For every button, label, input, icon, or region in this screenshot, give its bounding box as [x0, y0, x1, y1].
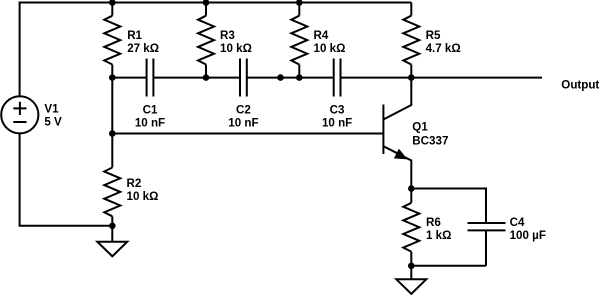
svg-text:R5: R5	[426, 29, 441, 42]
junction dot base wire tap	[109, 130, 116, 137]
V1 plus sign	[13, 102, 26, 115]
resistor R2	[104, 168, 120, 242]
wire V1 minus terminal down to bottom rail	[19, 133, 113, 227]
svg-text:BC337: BC337	[412, 135, 448, 148]
V1 minus sign	[13, 121, 26, 123]
wire C4 bottom to ground rail	[411, 230, 486, 265]
junction dot top rail / R3	[203, 0, 210, 6]
junction dot node C2/R4/C3	[296, 74, 303, 81]
transistor Q1 base bar	[382, 105, 384, 155]
svg-text:10 nF: 10 nF	[135, 116, 165, 129]
junction dot bottom rail / R2 / ground	[109, 223, 116, 230]
voltage source V1 circle	[1, 96, 38, 133]
svg-text:10 kΩ: 10 kΩ	[314, 42, 346, 55]
svg-text:10 kΩ: 10 kΩ	[220, 42, 252, 55]
capacitor C1	[147, 59, 154, 97]
svg-text:10 nF: 10 nF	[322, 116, 352, 129]
svg-text:10 kΩ: 10 kΩ	[127, 190, 159, 203]
svg-text:27 kΩ: 27 kΩ	[127, 42, 159, 55]
resistor R5	[403, 3, 419, 78]
junction dot wire joint C2-R4	[277, 74, 284, 81]
svg-text:V1: V1	[44, 103, 59, 116]
wire output from collector node to Output flag	[411, 77, 542, 79]
wire left rail from top rail down to V1 plus terminal	[19, 2, 21, 97]
svg-text:R6: R6	[426, 216, 441, 229]
wire emitter node to C4 top	[411, 189, 486, 224]
ground symbol right	[396, 279, 426, 294]
wire R1 bottom node down to R2	[111, 78, 113, 168]
svg-text:Q1: Q1	[412, 121, 428, 134]
junction dot R6 bottom / ground	[408, 263, 415, 270]
svg-text:100 µF: 100 µF	[510, 229, 546, 242]
wire R3 bottom node to C2 left plate	[206, 77, 240, 79]
resistor R1	[104, 3, 120, 78]
svg-text:5 V: 5 V	[44, 116, 62, 129]
svg-text:1 kΩ: 1 kΩ	[426, 229, 451, 242]
wire C3 right plate to collector node	[341, 77, 412, 79]
transistor Q1 emitter	[383, 146, 411, 188]
svg-text:C3: C3	[330, 103, 345, 116]
wire top supply rail	[20, 2, 412, 4]
svg-text:Output: Output	[561, 79, 599, 92]
svg-text:R1: R1	[127, 29, 142, 42]
junction dot top rail / R4	[296, 0, 303, 6]
wire base from R2 tap to Q1 base	[112, 133, 383, 135]
capacitor C4	[468, 223, 506, 230]
wire C1 right plate to R3 bottom node	[153, 77, 206, 79]
junction dot emitter node	[408, 185, 415, 192]
junction dot node C3/R5/collector/output	[408, 74, 415, 81]
junction dot top rail / R1	[109, 0, 116, 6]
svg-text:4.7 kΩ: 4.7 kΩ	[426, 42, 461, 55]
transistor Q1 collector	[383, 78, 411, 120]
wire C2 right plate to R4 bottom node	[247, 77, 299, 79]
svg-text:C2: C2	[236, 103, 251, 116]
svg-text:10 nF: 10 nF	[228, 116, 258, 129]
resistor R4	[291, 3, 307, 78]
ground symbol left	[97, 242, 127, 257]
wire R4 bottom node to C3 left plate	[299, 77, 333, 79]
svg-text:C4: C4	[510, 216, 525, 229]
wire R1 bottom node to C1 left plate	[112, 77, 146, 79]
wire R6 bottom to ground	[410, 266, 412, 280]
capacitor C3	[334, 59, 341, 97]
resistor R3	[198, 3, 214, 78]
resistor R6	[403, 189, 419, 266]
svg-text:R2: R2	[127, 177, 142, 190]
junction dot node R1/R2/C1	[109, 74, 116, 81]
svg-text:R4: R4	[314, 29, 329, 42]
junction dot node C1/R3/C2	[203, 74, 210, 81]
capacitor C2	[240, 59, 247, 97]
svg-text:R3: R3	[220, 29, 235, 42]
transistor Q1 emitter arrowhead	[395, 150, 406, 158]
svg-text:C1: C1	[143, 103, 158, 116]
